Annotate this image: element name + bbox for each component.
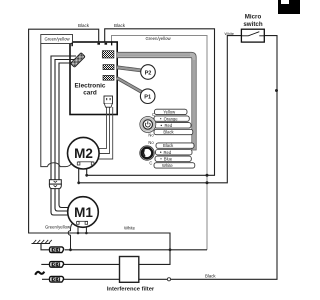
svg-text:switch: switch [243,21,262,28]
svg-text:P2: P2 [145,70,152,76]
svg-text:Black: Black [205,273,216,278]
svg-text:Black: Black [114,23,126,28]
svg-text:C: C [149,160,152,165]
svg-text:White: White [124,226,136,231]
svg-text:Micro: Micro [245,14,262,21]
svg-text:Electronic: Electronic [75,83,106,90]
svg-text:Green/yellow: Green/yellow [45,36,71,41]
svg-text:P1: P1 [144,95,151,101]
svg-text:White: White [162,163,173,168]
svg-text:card: card [83,90,97,97]
svg-text:Green/yellow: Green/yellow [146,36,172,41]
svg-text:Blue: Blue [164,156,173,161]
svg-text:Green/yellow: Green/yellow [45,225,71,230]
svg-text:No: No [148,132,154,137]
svg-text:Black: Black [78,23,90,28]
svg-text:Black: Black [163,130,174,135]
svg-text:M1: M1 [74,205,93,220]
svg-text:No: No [148,140,154,145]
svg-text:C: C [152,112,155,117]
svg-text:Red: Red [165,123,173,128]
svg-text:Black: Black [163,143,174,148]
svg-text:Red: Red [164,150,172,155]
svg-text:M2: M2 [74,146,93,161]
svg-text:White: White [225,32,234,36]
svg-text:Orange: Orange [164,116,179,121]
svg-text:Yellow: Yellow [163,110,176,115]
svg-text:Interference filter: Interference filter [107,287,155,293]
